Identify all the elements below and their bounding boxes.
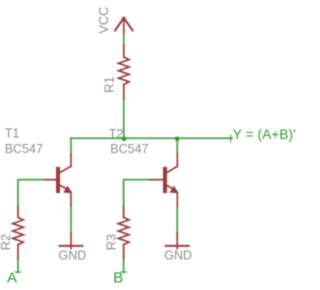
svg-text:R2: R2 <box>0 234 13 250</box>
svg-text:B: B <box>113 270 123 287</box>
svg-text:GND: GND <box>164 249 192 263</box>
svg-text:R3: R3 <box>104 234 119 250</box>
svg-text:T1: T1 <box>5 127 20 141</box>
svg-text:A: A <box>7 270 17 287</box>
svg-text:Y = (A+B)': Y = (A+B)' <box>233 127 296 142</box>
svg-text:VCC: VCC <box>96 7 111 34</box>
svg-text:GND: GND <box>59 249 87 263</box>
svg-text:R1: R1 <box>101 76 116 92</box>
svg-text:BC547: BC547 <box>110 142 148 156</box>
svg-text:BC547: BC547 <box>5 142 43 156</box>
